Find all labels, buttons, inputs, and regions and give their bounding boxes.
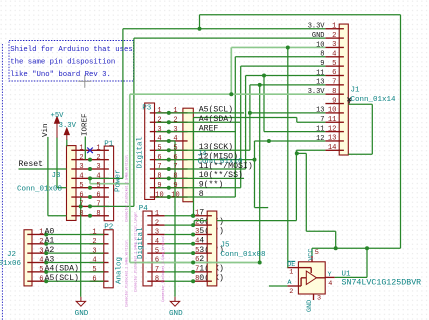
pin — [325, 46, 339, 48]
pin — [152, 252, 165, 254]
svg-text:A5(SCL): A5(SCL) — [45, 273, 79, 283]
svg-text:10(**/SS): 10(**/SS) — [199, 170, 243, 180]
svg-text:10: 10 — [316, 41, 324, 49]
pin — [339, 112, 344, 114]
wire — [366, 248, 368, 277]
pin — [311, 256, 313, 262]
svg-text:Conn_01x08: Conn_01x08 — [17, 185, 62, 193]
wire — [165, 262, 194, 264]
connector J1 body — [339, 24, 348, 155]
svg-text:8: 8 — [173, 173, 177, 181]
wire — [400, 15, 402, 249]
pin — [76, 177, 90, 179]
ground — [170, 297, 179, 306]
pin — [104, 168, 109, 170]
wire — [255, 140, 326, 142]
svg-text:5: 5 — [96, 182, 100, 190]
pin — [155, 149, 169, 151]
connector P3 body — [145, 103, 155, 199]
wire — [165, 215, 194, 217]
wire — [134, 37, 326, 39]
pin — [207, 233, 212, 235]
pin — [339, 46, 344, 48]
svg-text:U1: U1 — [342, 271, 352, 279]
pin — [183, 121, 188, 123]
svg-text:10: 10 — [171, 191, 179, 199]
wire — [287, 47, 289, 267]
wire — [165, 224, 194, 226]
wire — [90, 205, 134, 207]
pin — [32, 243, 46, 245]
junction — [88, 195, 92, 199]
svg-text:3: 3 — [39, 247, 43, 255]
svg-text:10: 10 — [328, 107, 337, 115]
svg-text:4: 4 — [92, 257, 96, 265]
pin — [169, 159, 183, 161]
pin — [104, 233, 109, 235]
pin — [207, 280, 212, 282]
pin — [90, 280, 104, 282]
pin — [339, 140, 344, 142]
svg-text:6: 6 — [157, 154, 161, 162]
svg-text:3: 3 — [96, 163, 100, 171]
svg-text:1: 1 — [79, 145, 83, 153]
svg-text:AREF: AREF — [199, 124, 219, 133]
pin — [104, 243, 109, 245]
junction — [248, 111, 252, 115]
wire — [48, 215, 67, 217]
junction — [191, 270, 195, 274]
svg-text:A4(SDA): A4(SDA) — [199, 114, 233, 124]
wire — [371, 104, 373, 154]
svg-text:5: 5 — [315, 249, 319, 257]
pin — [27, 233, 32, 235]
svg-text:3: 3 — [157, 126, 161, 134]
wire — [235, 56, 325, 58]
wire — [57, 187, 67, 189]
pin — [183, 131, 188, 133]
wire — [250, 112, 326, 114]
svg-text:2: 2 — [92, 238, 96, 246]
svg-text:3: 3 — [332, 41, 336, 49]
pin — [193, 271, 207, 273]
pin — [183, 177, 188, 179]
pin — [339, 84, 344, 86]
junction — [191, 251, 195, 255]
pin — [27, 243, 32, 245]
pin — [193, 215, 207, 217]
wire — [234, 57, 236, 197]
wire — [46, 262, 104, 264]
ground — [76, 297, 85, 306]
wire — [156, 121, 169, 123]
svg-text:1: 1 — [332, 22, 336, 30]
pin — [325, 121, 339, 123]
svg-text:Y: Y — [328, 271, 332, 279]
svg-text:8: 8 — [96, 210, 100, 218]
svg-text:7: 7 — [173, 163, 177, 171]
wire — [296, 149, 325, 151]
pin — [76, 168, 90, 170]
wire — [306, 230, 335, 232]
pin — [104, 187, 109, 189]
svg-text:A0: A0 — [45, 227, 55, 236]
pin — [104, 271, 109, 273]
wire — [194, 220, 207, 222]
wire — [156, 159, 169, 161]
pin — [150, 159, 155, 161]
pin — [207, 224, 212, 226]
pin — [325, 131, 339, 133]
connector J5 body — [207, 211, 217, 286]
svg-text:8: 8 — [155, 275, 159, 283]
svg-text:12: 12 — [328, 125, 337, 133]
wire — [46, 243, 104, 245]
wire — [90, 177, 123, 179]
connector J4 body — [183, 108, 193, 202]
wire — [240, 66, 242, 188]
pin — [339, 56, 344, 58]
svg-text:4: 4 — [173, 135, 177, 143]
pin — [90, 168, 104, 170]
svg-text:2: 2 — [39, 238, 43, 246]
svg-text:IOREF: IOREF — [82, 113, 90, 136]
svg-text:6: 6 — [173, 154, 177, 162]
wire — [156, 140, 169, 142]
svg-text:5: 5 — [173, 145, 177, 153]
pin — [71, 149, 76, 151]
svg-text:2: 2 — [332, 32, 336, 40]
svg-text:13: 13 — [316, 79, 324, 87]
svg-text:Digital: Digital — [136, 136, 144, 168]
pin — [325, 37, 339, 39]
pin — [325, 56, 339, 58]
wire — [169, 131, 236, 133]
wire — [254, 141, 256, 208]
wire — [348, 153, 372, 155]
pin — [183, 140, 188, 142]
wire — [193, 118, 195, 216]
wire — [80, 197, 82, 297]
pin — [90, 205, 104, 207]
svg-text:6: 6 — [92, 275, 96, 283]
svg-text:2: 2 — [157, 116, 161, 124]
svg-text:6: 6 — [96, 191, 100, 199]
svg-text:5: 5 — [157, 145, 161, 153]
wire — [259, 85, 261, 263]
junction — [44, 242, 48, 246]
pin — [207, 243, 212, 245]
+5V symbol — [55, 117, 60, 138]
svg-text:like "Uno" board Rev 3.: like "Uno" board Rev 3. — [10, 71, 111, 79]
pin — [183, 149, 188, 151]
pin — [104, 159, 109, 161]
pin — [76, 215, 90, 217]
pin — [152, 215, 165, 217]
pin — [71, 196, 76, 198]
wire — [199, 15, 201, 29]
svg-text:5: 5 — [79, 182, 83, 190]
pin — [90, 177, 104, 179]
svg-text:5: 5 — [92, 266, 96, 274]
pin — [300, 278, 302, 286]
wire — [46, 280, 104, 282]
svg-text:Reset: Reset — [19, 160, 44, 169]
pin — [298, 285, 301, 287]
wire — [46, 233, 104, 235]
junction — [167, 186, 171, 190]
wire — [156, 168, 169, 170]
wire — [200, 14, 401, 16]
pin — [325, 140, 339, 142]
pin — [152, 280, 165, 282]
junction — [191, 261, 195, 265]
wire — [169, 159, 255, 161]
wire — [165, 280, 194, 282]
wire — [122, 29, 124, 179]
junction — [191, 214, 195, 218]
pin — [193, 233, 207, 235]
pin — [104, 149, 109, 151]
junction — [44, 251, 48, 255]
wire — [123, 28, 326, 30]
wire — [311, 248, 313, 256]
pin — [150, 112, 155, 114]
svg-text:3: 3 — [173, 126, 177, 134]
svg-text:J1: J1 — [351, 87, 361, 95]
wire — [169, 140, 175, 142]
svg-text:2: 2 — [173, 116, 177, 124]
svg-text:A4(SDA): A4(SDA) — [45, 264, 79, 274]
pin — [147, 262, 152, 264]
svg-text:Power: Power — [114, 169, 122, 192]
wire — [169, 168, 246, 170]
wire — [297, 152, 307, 154]
svg-text:7: 7 — [320, 116, 324, 124]
junction — [44, 270, 48, 274]
junction — [88, 214, 92, 218]
junction — [258, 83, 262, 87]
svg-text:4: 4 — [96, 173, 100, 181]
wire — [169, 112, 244, 114]
svg-text:13: 13 — [316, 107, 324, 115]
pin — [104, 252, 109, 254]
pin — [71, 215, 76, 217]
svg-text:4: 4 — [332, 51, 336, 59]
pin — [76, 159, 90, 161]
wire — [169, 149, 250, 151]
svg-text:Connector_PinSocket_2.54mm_Ver: Connector_PinSocket_2.54mm_Vertical — [125, 240, 129, 307]
wire — [165, 271, 194, 273]
origin cross — [78, 75, 91, 88]
svg-text:4: 4 — [155, 238, 159, 246]
pin — [183, 196, 188, 198]
svg-text:7: 7 — [155, 266, 159, 274]
svg-text:4: 4 — [157, 135, 161, 143]
pin — [150, 140, 155, 142]
svg-text:8: 8 — [199, 190, 204, 199]
junction — [167, 195, 171, 199]
svg-text:11: 11 — [316, 69, 324, 77]
svg-text:8: 8 — [157, 173, 161, 181]
pin — [325, 93, 339, 95]
wire — [335, 276, 367, 278]
svg-text:P3: P3 — [142, 104, 152, 112]
+3.3V symbol — [64, 128, 69, 140]
pin — [169, 121, 183, 123]
wire — [348, 103, 372, 105]
pin — [32, 233, 46, 235]
svg-text:9: 9 — [157, 182, 161, 190]
wire — [305, 153, 307, 231]
U1 triangle — [306, 271, 316, 285]
pin — [27, 262, 32, 264]
svg-text:2: 2 — [155, 219, 159, 227]
svg-text:J2: J2 — [7, 251, 16, 259]
wire — [156, 196, 169, 198]
wire — [194, 117, 297, 119]
svg-text:9(**): 9(**) — [199, 180, 224, 190]
svg-text:3: 3 — [317, 295, 321, 303]
pin — [325, 112, 339, 114]
pin — [339, 65, 344, 67]
junction — [88, 158, 92, 162]
svg-text:P4: P4 — [139, 205, 149, 213]
pin — [325, 75, 339, 77]
svg-text:SN74LVC1G125DBVR: SN74LVC1G125DBVR — [342, 279, 422, 288]
junction — [167, 148, 171, 152]
junction — [167, 120, 171, 124]
pin — [169, 196, 183, 198]
svg-text:1: 1 — [289, 269, 293, 277]
junction — [191, 242, 195, 246]
pin — [76, 196, 90, 198]
wire — [156, 131, 169, 133]
pin — [183, 168, 188, 170]
svg-text:A3: A3 — [45, 255, 55, 264]
wire — [156, 149, 169, 151]
wire — [46, 271, 104, 273]
svg-text:10: 10 — [155, 191, 163, 199]
pin — [104, 177, 109, 179]
junction — [44, 261, 48, 265]
wire highlighted — [130, 262, 260, 264]
pin — [71, 205, 76, 207]
junction — [167, 176, 171, 180]
wire — [241, 65, 326, 67]
pin — [169, 112, 183, 114]
junction — [334, 246, 338, 250]
pin — [298, 267, 311, 269]
junction — [88, 167, 92, 171]
pin — [325, 149, 339, 151]
pin — [207, 215, 212, 217]
pin — [325, 103, 339, 105]
wire — [165, 233, 194, 235]
pin — [76, 149, 90, 151]
svg-text:7: 7 — [96, 201, 100, 209]
connector P1 body — [104, 146, 113, 221]
svg-text:Analog: Analog — [116, 257, 124, 284]
wire highlighted — [130, 93, 326, 95]
pin — [32, 271, 46, 273]
svg-text:12: 12 — [316, 135, 324, 143]
svg-text:5: 5 — [155, 247, 159, 255]
svg-text:GND: GND — [75, 310, 89, 318]
svg-text:GND: GND — [306, 300, 314, 312]
svg-text:J3: J3 — [51, 172, 61, 180]
pin — [147, 224, 152, 226]
wire — [165, 252, 194, 254]
wire highlighted — [90, 183, 130, 185]
wire — [255, 207, 269, 209]
svg-text:Connector_PinSocket_2.54mm_Ver: Connector_PinSocket_2.54mm_Vertical — [161, 235, 165, 302]
junction — [198, 27, 202, 31]
svg-text:1: 1 — [173, 107, 177, 115]
pin — [150, 121, 155, 123]
svg-text:5: 5 — [39, 266, 43, 274]
svg-text:7: 7 — [332, 79, 336, 87]
svg-text:11: 11 — [316, 125, 324, 133]
svg-text:the same pin disposition: the same pin disposition — [10, 59, 115, 67]
no-connect X — [87, 148, 93, 154]
wire — [295, 150, 297, 220]
wire — [264, 131, 325, 133]
pin — [152, 233, 165, 235]
svg-text:6: 6 — [332, 69, 336, 77]
svg-text:1: 1 — [96, 145, 100, 153]
note text box — [2, 41, 133, 320]
svg-text:GND: GND — [169, 310, 183, 318]
pin — [152, 243, 165, 245]
pin — [71, 168, 76, 170]
pin — [301, 277, 306, 279]
svg-text:J5: J5 — [221, 242, 231, 250]
svg-text:1: 1 — [92, 229, 96, 237]
svg-text:1: 1 — [39, 229, 43, 237]
pin — [155, 140, 169, 142]
pin — [71, 159, 76, 161]
wire — [269, 285, 287, 287]
wire — [66, 140, 68, 147]
pin — [339, 28, 344, 30]
pin — [339, 149, 344, 151]
wire highlighted — [231, 46, 325, 48]
wire — [84, 137, 86, 160]
pin — [183, 112, 188, 114]
junction — [191, 279, 195, 283]
pin — [147, 215, 152, 217]
pin — [155, 168, 169, 170]
svg-text:1: 1 — [157, 107, 161, 115]
wire highlighted — [129, 94, 131, 184]
connector J3 body — [67, 146, 77, 221]
junction — [167, 139, 171, 143]
svg-text:4: 4 — [39, 257, 43, 265]
wire — [156, 112, 169, 114]
pin — [193, 280, 207, 282]
pin — [90, 233, 104, 235]
pin — [207, 252, 212, 254]
wire — [19, 168, 67, 170]
wire highlighted — [129, 184, 131, 263]
pin — [169, 187, 183, 189]
svg-text:9: 9 — [332, 97, 336, 105]
pin — [325, 276, 335, 278]
svg-text:3.3V: 3.3V — [59, 122, 77, 130]
svg-text:A5(SCL): A5(SCL) — [199, 105, 233, 115]
svg-text:Conn_01x06: Conn_01x06 — [0, 260, 22, 268]
